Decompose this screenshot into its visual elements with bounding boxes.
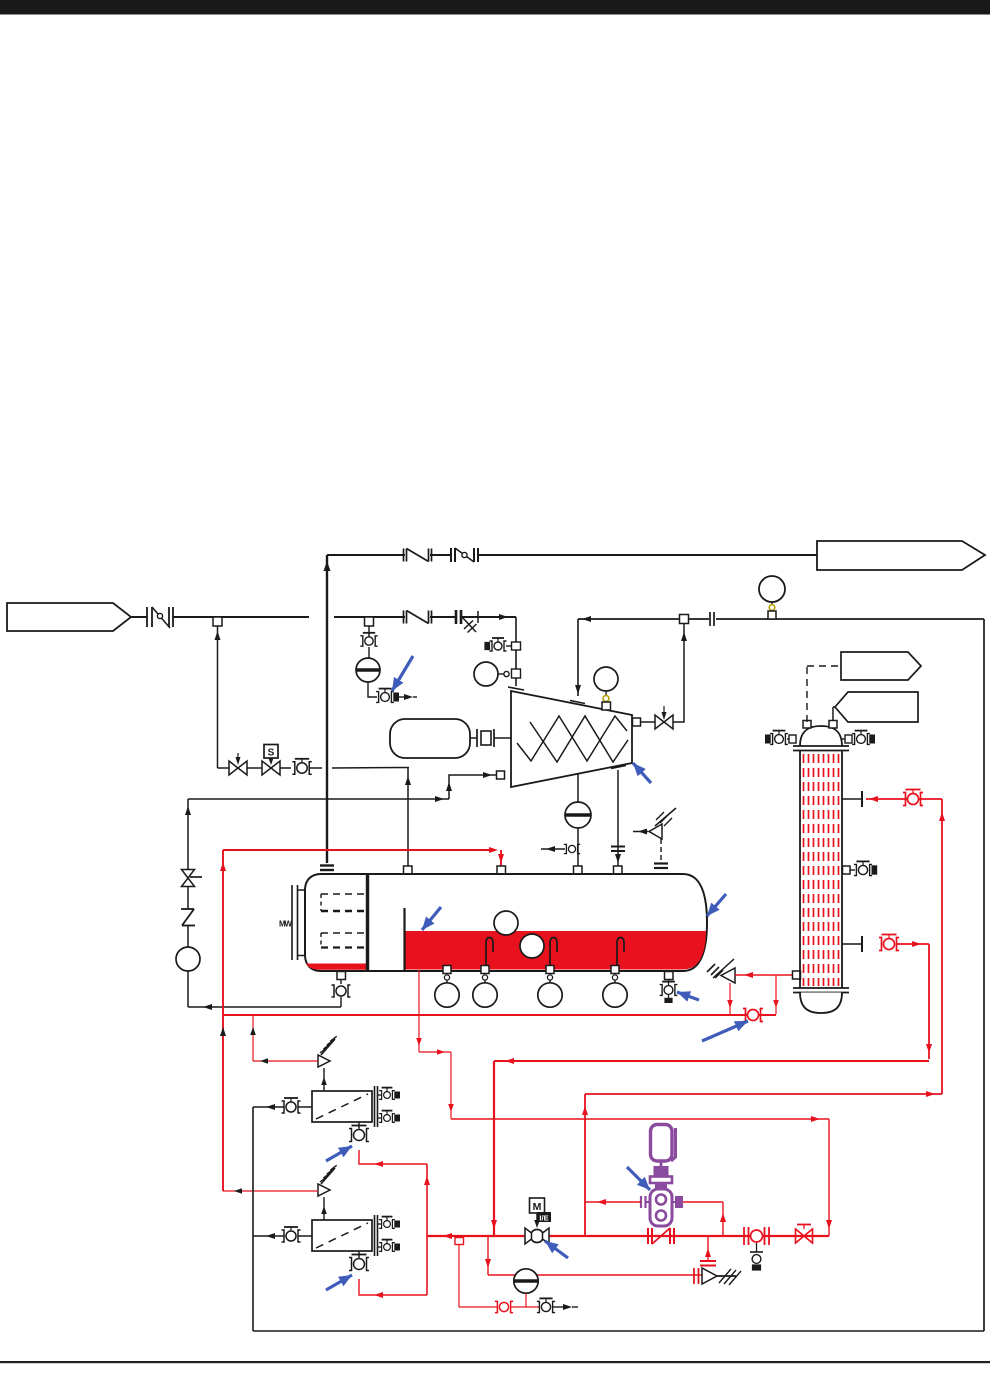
drum bottom nozzle + level chamber 2 [473, 966, 497, 1008]
compressor top instrument [594, 667, 618, 710]
red valve at (913,799) [903, 790, 923, 806]
drum nozzle square x618 [614, 866, 623, 874]
red riser x223 [220, 850, 226, 1191]
blue pointer 10 (dosing pump) [627, 1167, 650, 1190]
dosing pump head (gear pump) [650, 1189, 672, 1226]
solenoid gate valve with S actuator [262, 745, 280, 776]
flow arrow west near corner x578 [582, 616, 591, 622]
dip tube 2 [550, 938, 557, 971]
vent flange bars x661 [654, 864, 668, 869]
spectacle blind with circle (left inlet) [147, 607, 173, 628]
strainer + drain funnel near drum (hatched) [707, 959, 735, 983]
wire: row to vessel riser [310, 767, 409, 770]
wire: segment 2 [187, 925, 189, 947]
float ball in liquid [520, 934, 544, 958]
blue pointer 7 (filter1 outlet) [326, 1146, 352, 1161]
drum bottom nozzle + level chamber 1 [435, 966, 459, 1008]
drum bottom nozzle + level chamber 4 [603, 966, 627, 1008]
callout flag 2 (right) [833, 692, 918, 722]
exchanger bottom dome [800, 993, 842, 1014]
spectacle blind with circle (line y555) [451, 548, 478, 562]
off-page connector flag (top right) [817, 541, 985, 570]
coupling between bottle and compressor [470, 729, 511, 747]
wire: compressor to drum via gauge x578 [577, 774, 579, 866]
compressor suction nozzle square [497, 771, 505, 779]
wire: dashed vent line x661 [660, 839, 662, 862]
branch square on header at x217 [213, 617, 222, 626]
dip tube 3 [617, 938, 624, 971]
blue pointer 6 (red pump valve) [702, 1021, 748, 1041]
connection tick compressor bottom [611, 766, 626, 769]
wire: line y799 from left string to compressor [188, 772, 496, 802]
wire: segment 3 + drain run to drum valve [188, 971, 341, 1010]
gate valve vertical (left string) [182, 870, 203, 887]
red feed to exchanger n1 [866, 796, 942, 802]
drum boot liquid (red, left) [306, 964, 366, 970]
red stub x253 from header to PSV1 line [250, 1015, 256, 1061]
red drain branch to flame check [485, 1236, 702, 1275]
wire: row segment 2 [280, 767, 291, 769]
red transfer line y1119 [451, 1116, 832, 1236]
red main riser x494 [491, 1061, 497, 1236]
blue pointer 1 (vent valve) [392, 656, 413, 691]
red flanged valve at (756,1236) [744, 1227, 769, 1245]
branch square on loop line at x684 [680, 615, 689, 624]
compressor screw symbol [517, 716, 628, 762]
vacuum relief with flame arrestor (drum vent) [633, 808, 676, 839]
exchanger dome nozzle squares [803, 721, 837, 729]
dashed instrument line to flag1 [807, 666, 839, 722]
blue pointer 9 (M valve) [545, 1241, 568, 1258]
wire: segment [187, 886, 189, 909]
svg-text:I/E: I/E [539, 1214, 548, 1223]
riser x327 from drum to top line [324, 555, 331, 863]
demister mesh dashes row4 [321, 946, 366, 948]
exchanger top dome [800, 726, 842, 746]
line break bars on loop line [710, 612, 714, 626]
red riser x942 [939, 799, 945, 1094]
drum boot drain nozzle + valve [332, 972, 351, 1008]
off-page connector flag (top left) [7, 603, 131, 631]
red valve at (889,944) [879, 935, 899, 951]
motor operated valve M [525, 1198, 551, 1244]
drum feed nozzle square x501 [497, 866, 506, 874]
red main header y1236 [427, 1233, 829, 1239]
check valve with flame arrestor (drain) [694, 1268, 741, 1285]
float ball at liquid surface [494, 911, 518, 935]
demister mesh dashes row2 [321, 910, 366, 913]
drum right drain valve [660, 972, 678, 1003]
svg-text:S: S [268, 748, 275, 759]
wire: header corner down at x516 [515, 617, 517, 686]
wire: loop line y619 [578, 618, 984, 620]
suction bottle vessel [390, 719, 470, 758]
red riser x585 (pump discharge) [582, 1094, 588, 1236]
ball valve (valve row, right) [292, 759, 311, 774]
black bleed valve below [750, 1243, 763, 1270]
wire: drop to compressor top x578 [575, 619, 581, 696]
red pump suction valve at (753,1015) [743, 1009, 763, 1022]
exchanger lower-left nozzle square [793, 971, 801, 979]
callout flag 1 (right) [841, 652, 921, 680]
drum inlet flange x327 [320, 866, 334, 871]
removable spool N (header y617) [404, 611, 432, 624]
internal weir partition [366, 874, 369, 971]
exchanger nozzle3 stub [842, 936, 862, 952]
blue pointer 5 (drum drain valve) [677, 991, 699, 1001]
sample gauge [514, 1269, 538, 1307]
red gate valve at (804,1236) [796, 1225, 813, 1244]
wire: top outlet line y555 [327, 554, 817, 556]
black sample outlet valve [537, 1298, 578, 1312]
demister mesh dashes row3 [321, 932, 366, 934]
isolation valve at (369,641) [360, 626, 377, 658]
spectacle spool on header [648, 1228, 674, 1244]
svg-text:MW: MW [279, 920, 292, 929]
drain run from gauge [368, 682, 377, 697]
blue pointer 3 (liquid level) [422, 907, 441, 930]
spec break with drain slashes (header y617) [456, 610, 478, 633]
red riser with bars at x708 [700, 1236, 716, 1266]
expansion loop Z symbol [181, 909, 195, 926]
pressure gauge on loop line at x772 [759, 576, 785, 619]
dosing pump connections [641, 1196, 683, 1208]
exchanger top-right vent valve [842, 731, 874, 745]
red header y1015 [223, 1014, 776, 1016]
exchanger top-left vent valve [766, 731, 796, 745]
exchanger tubes (red dashed) [804, 754, 839, 986]
branch square at (516,646) [512, 642, 521, 650]
red relief line PSV1 to header [253, 1058, 318, 1064]
drain valve at (385,697) [376, 689, 417, 703]
connection tick compressor top [570, 701, 585, 704]
red pump suction/discharge lines [585, 1199, 726, 1236]
top black title bar [0, 0, 990, 15]
exchanger shell [800, 751, 842, 989]
wire: valve to loop line riser [673, 624, 687, 723]
internal level baffle [403, 908, 405, 970]
bottom horizontal rule [0, 1361, 990, 1363]
throttle gate valve (compressor discharge) [655, 706, 673, 729]
connection tick on compressor inlet [508, 687, 524, 690]
black filtrate return frame [253, 1107, 984, 1331]
pressure gauge at (578,815) [565, 802, 591, 828]
dosing pump coupling [650, 1161, 672, 1190]
wire: left string riser x188 [185, 799, 191, 869]
red filter riser x427 [424, 1164, 430, 1295]
instrument tap square at (516,674) [512, 669, 521, 678]
wire: inlet header y617 [131, 616, 516, 618]
flow arrow east on header [499, 614, 508, 620]
wire: drop to drum nozzle x407 [405, 768, 411, 867]
svg-text:M: M [533, 1201, 542, 1213]
vent valve at (498,646) [485, 638, 511, 651]
pressure gauge at (368,670) [356, 658, 380, 682]
dosing pump motor (purple) [651, 1125, 676, 1162]
wire: right border drop x984 [983, 619, 985, 1331]
wire red to gauge drop [511, 1306, 539, 1308]
drum nozzle square x574 [574, 866, 583, 874]
red line drum bottom right to exchanger [727, 972, 796, 1014]
dip tube 1 [486, 938, 493, 971]
branch square on header at x369 [365, 617, 374, 626]
red feed to F1 bottom [359, 1150, 427, 1167]
manway label MW [279, 920, 292, 929]
blue pointer 4 (drum end) [707, 894, 726, 916]
exchanger top flange [793, 746, 849, 751]
red drum outlet drop x419 [416, 970, 454, 1119]
red return line y1061 [494, 1058, 929, 1064]
red outlet n3 to riser x929 [896, 941, 932, 1059]
demister mesh dashes row1 [321, 893, 366, 895]
spec break bars on x618 [611, 847, 625, 852]
gate valve (valve row, left) [229, 753, 247, 775]
red relief line PSV2 to riser x223 [223, 1188, 318, 1194]
demister left edge dashes [320, 894, 322, 947]
exchanger nozzle1 stub [842, 791, 862, 807]
drum nozzle square x407 [404, 866, 413, 874]
side vent at y849 [541, 844, 580, 853]
red sample line [459, 1245, 497, 1308]
wire: discharge to valve [641, 721, 656, 723]
blue pointer 2 (compressor) [633, 763, 651, 783]
instrument circle (left string) [176, 947, 200, 971]
red line y850 to drum inlet [223, 847, 504, 866]
removable spool N (line y555) [404, 549, 432, 562]
pressure gauge PI at (486,674) [474, 662, 509, 686]
compressor discharge nozzle [633, 718, 641, 726]
wire: branch from header down to valve row [215, 626, 230, 768]
manway flange stack [292, 885, 304, 960]
exchanger bottom flange [793, 988, 849, 993]
red feed to F2 bottom [359, 1279, 427, 1298]
red sample valve [495, 1301, 513, 1312]
wire: row segment [247, 767, 262, 769]
wire: line x618 down to drum [615, 770, 621, 866]
compressor casing [511, 691, 632, 787]
blue pointer 8 (filter2 outlet) [326, 1275, 352, 1290]
filter F1 (upper) [253, 1036, 399, 1141]
drum liquid inventory (red) [405, 931, 706, 970]
red pump circuit line y1094 [585, 1091, 942, 1097]
exchanger mid nozzle2 + valve [843, 861, 877, 875]
main separator drum shell [305, 874, 707, 971]
drum bottom nozzle + level chamber 3 [538, 966, 562, 1008]
filter F2 (lower) [253, 1165, 399, 1270]
red sample branch square [455, 1238, 464, 1245]
